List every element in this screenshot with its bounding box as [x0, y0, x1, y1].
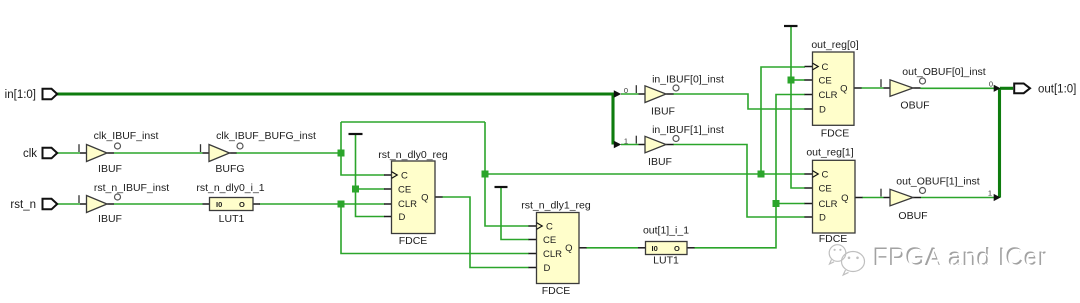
svg-text:Q: Q	[421, 192, 428, 203]
svg-text:CE: CE	[543, 235, 556, 246]
svg-text:FDCE: FDCE	[821, 128, 850, 140]
svg-text:OBUF: OBUF	[900, 100, 929, 112]
svg-text:in_IBUF[1]_inst: in_IBUF[1]_inst	[652, 124, 724, 136]
svg-text:D: D	[544, 263, 551, 274]
svg-text:rst_n: rst_n	[10, 199, 36, 211]
svg-text:rst_n_dly1_reg: rst_n_dly1_reg	[521, 200, 591, 212]
svg-text:C: C	[822, 169, 829, 180]
svg-text:D: D	[819, 212, 826, 223]
svg-text:1: 1	[624, 137, 628, 146]
svg-text:Q: Q	[840, 83, 847, 94]
svg-text:rst_n_dly0_reg: rst_n_dly0_reg	[378, 149, 448, 161]
svg-text:FPGA and ICer: FPGA and ICer	[874, 245, 1048, 272]
svg-text:CE: CE	[398, 184, 411, 195]
svg-text:clk_IBUF_BUFG_inst: clk_IBUF_BUFG_inst	[216, 130, 316, 142]
svg-text:CLR: CLR	[819, 90, 838, 101]
svg-text:Q: Q	[565, 243, 572, 254]
svg-text:O: O	[239, 200, 245, 209]
svg-text:CE: CE	[819, 183, 832, 194]
svg-text:I0: I0	[652, 244, 658, 253]
svg-text:IBUF: IBUF	[651, 106, 675, 118]
svg-text:BUFG: BUFG	[215, 163, 244, 175]
svg-text:0: 0	[989, 79, 993, 88]
svg-text:C: C	[546, 221, 553, 232]
svg-text:0: 0	[624, 86, 628, 95]
svg-text:IBUF: IBUF	[98, 213, 122, 225]
svg-text:in[1:0]: in[1:0]	[5, 89, 36, 101]
svg-text:CLR: CLR	[398, 199, 417, 210]
svg-text:I0: I0	[216, 200, 222, 209]
svg-text:D: D	[399, 212, 406, 223]
svg-text:out_reg[0]: out_reg[0]	[811, 39, 858, 51]
svg-text:CE: CE	[819, 75, 832, 86]
svg-text:rst_n_IBUF_inst: rst_n_IBUF_inst	[94, 182, 169, 194]
svg-text:1: 1	[988, 189, 992, 198]
svg-text:out_OBUF[1]_inst: out_OBUF[1]_inst	[896, 176, 980, 188]
svg-text:CLR: CLR	[819, 199, 838, 210]
svg-text:CLR: CLR	[543, 249, 562, 260]
svg-text:FDCE: FDCE	[399, 235, 428, 247]
svg-text:Q: Q	[841, 193, 848, 204]
svg-text:out[1]_i_1: out[1]_i_1	[643, 225, 689, 237]
svg-text:FDCE: FDCE	[542, 285, 571, 297]
svg-text:O: O	[674, 244, 680, 253]
svg-text:clk: clk	[23, 148, 37, 160]
svg-text:FDCE: FDCE	[819, 233, 848, 245]
svg-text:LUT1: LUT1	[653, 255, 679, 267]
svg-text:D: D	[819, 104, 826, 115]
svg-text:IBUF: IBUF	[648, 156, 672, 168]
svg-text:out_reg[1]: out_reg[1]	[806, 147, 853, 159]
svg-text:IBUF: IBUF	[98, 163, 122, 175]
svg-text:rst_n_dly0_i_1: rst_n_dly0_i_1	[196, 182, 264, 194]
svg-text:LUT1: LUT1	[219, 213, 245, 225]
svg-text:clk_IBUF_inst: clk_IBUF_inst	[94, 130, 159, 142]
svg-text:C: C	[822, 62, 829, 73]
svg-text:C: C	[401, 170, 408, 181]
svg-text:in_IBUF[0]_inst: in_IBUF[0]_inst	[652, 74, 724, 86]
svg-text:out_OBUF[0]_inst: out_OBUF[0]_inst	[902, 66, 986, 78]
svg-text:OBUF: OBUF	[898, 210, 927, 222]
svg-text:out[1:0]: out[1:0]	[1038, 84, 1076, 96]
